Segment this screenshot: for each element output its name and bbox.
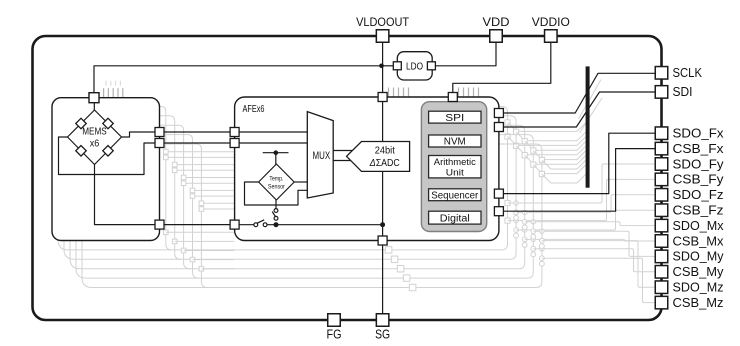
svg-text:Arithmetic: Arithmetic — [434, 157, 476, 168]
svg-text:SDO_Mx: SDO_Mx — [673, 218, 724, 233]
svg-text:SDO_My: SDO_My — [673, 249, 724, 264]
svg-text:SCLK: SCLK — [673, 66, 703, 80]
svg-text:VDDIO: VDDIO — [532, 15, 570, 29]
svg-text:VLDOOUT: VLDOOUT — [356, 15, 410, 29]
svg-text:SDI: SDI — [673, 85, 693, 99]
svg-text:ΔΣADC: ΔΣADC — [369, 158, 400, 169]
svg-text:SDO_Fx: SDO_Fx — [673, 126, 725, 141]
svg-text:Unit: Unit — [446, 167, 464, 178]
svg-text:Temp.: Temp. — [269, 176, 283, 183]
svg-text:NVM: NVM — [444, 137, 466, 148]
svg-text:MUX: MUX — [312, 150, 330, 162]
svg-text:CSB_Fx: CSB_Fx — [673, 141, 725, 156]
svg-text:CSB_My: CSB_My — [673, 264, 724, 279]
svg-text:Digital: Digital — [440, 213, 470, 224]
svg-text:SDO_Mz: SDO_Mz — [673, 280, 724, 295]
svg-text:Sequencer: Sequencer — [431, 190, 479, 201]
svg-text:SDO_Fy: SDO_Fy — [673, 156, 725, 171]
svg-text:VDD: VDD — [483, 15, 510, 29]
svg-text:LDO: LDO — [406, 62, 423, 73]
svg-text:SG: SG — [375, 328, 390, 342]
svg-text:24bit: 24bit — [375, 146, 395, 157]
svg-text:CSB_Mz: CSB_Mz — [673, 295, 724, 310]
svg-text:AFEx6: AFEx6 — [243, 104, 265, 115]
svg-text:Sensor: Sensor — [268, 184, 286, 191]
svg-text:CSB_Mx: CSB_Mx — [673, 233, 724, 248]
svg-text:x6: x6 — [90, 138, 100, 150]
svg-text:SDO_Fz: SDO_Fz — [673, 187, 724, 202]
svg-text:FG: FG — [327, 328, 342, 342]
svg-text:MEMS: MEMS — [82, 126, 107, 138]
svg-text:SPI: SPI — [445, 113, 464, 124]
svg-text:CSB_Fy: CSB_Fy — [673, 172, 725, 187]
svg-text:CSB_Fz: CSB_Fz — [673, 203, 724, 218]
